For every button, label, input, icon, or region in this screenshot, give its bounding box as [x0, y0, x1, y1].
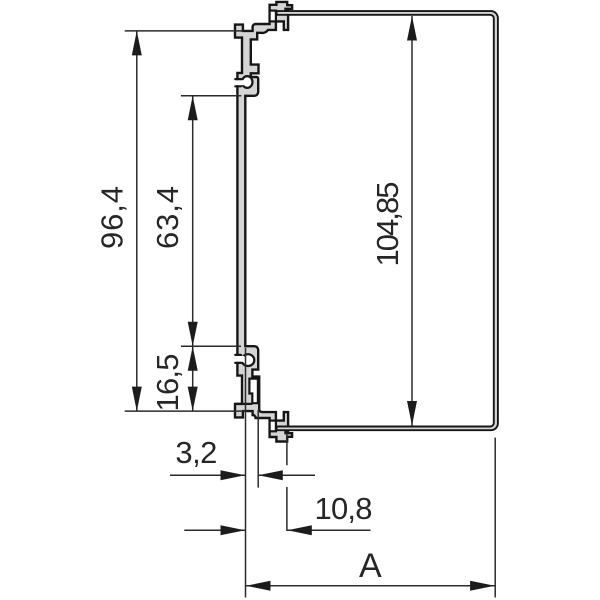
- dimension 63,4 : dimension line: [192, 96, 194, 346]
- lower screw-channel hole: [242, 354, 255, 366]
- svg-text:3,2: 3,2: [175, 435, 217, 470]
- svg-text:96,4: 96,4: [95, 186, 130, 249]
- dimension 96,4 : extension lines: [125, 30, 244, 32]
- upper screw-channel hole: [242, 76, 253, 88]
- svg-text:16,5: 16,5: [150, 354, 185, 412]
- bottom panel end cap: [276, 426, 278, 432]
- dimension 104,85 : dimension line: [411, 16, 413, 426]
- dimension 3,2 : extension line right: [257, 410, 259, 488]
- dimension 96,4 : arrowheads: [132, 31, 142, 56]
- foot head top hidden edge: [235, 403, 252, 405]
- frame panel ring fill (top bar, right side, bottom bar): [277, 11, 498, 430]
- bottom Z-flange channel slot (white): [249, 379, 258, 404]
- dimension 104,85 : arrowheads: [407, 16, 417, 41]
- frame inner boundary line: [277, 15, 494, 427]
- svg-text:63,4: 63,4: [150, 186, 185, 249]
- dimension A : arrowheads: [246, 581, 271, 591]
- dimension A : dimension line: [246, 585, 495, 587]
- extrusion profile cross-section (gray filled silhouette): [235, 2, 292, 442]
- dimension 63,4 : extension lines: [181, 95, 241, 97]
- svg-text:104,85: 104,85: [370, 182, 405, 267]
- dimension 3,2 : extension line left: [245, 348, 247, 598]
- frame outer boundary line: [277, 11, 498, 430]
- dimension A : extension line right: [494, 438, 496, 598]
- dimension 3,2 : dimension line with outside arrows: [170, 474, 245, 476]
- dimension 16,5 : dimension line: [192, 346, 194, 411]
- dimension 63,4 : arrowheads: [188, 96, 198, 121]
- lower screw-channel mouth: [234, 356, 244, 362]
- dimension 96,4 : dimension line: [136, 31, 138, 411]
- top panel end cap: [276, 10, 278, 16]
- svg-text:A: A: [359, 547, 382, 585]
- upper screw-channel mouth: [234, 80, 244, 85]
- svg-text:10,8: 10,8: [315, 491, 373, 526]
- dimension 16,5 : arrowheads: [188, 346, 198, 371]
- top panel slot hole in profile: [270, 11, 276, 22]
- dimension 10,8 : dimension line with outside arrows: [184, 529, 245, 531]
- dimension 10,8 : extension line right (broken): [286, 433, 288, 465]
- bottom panel slot hole in profile: [270, 421, 276, 432]
